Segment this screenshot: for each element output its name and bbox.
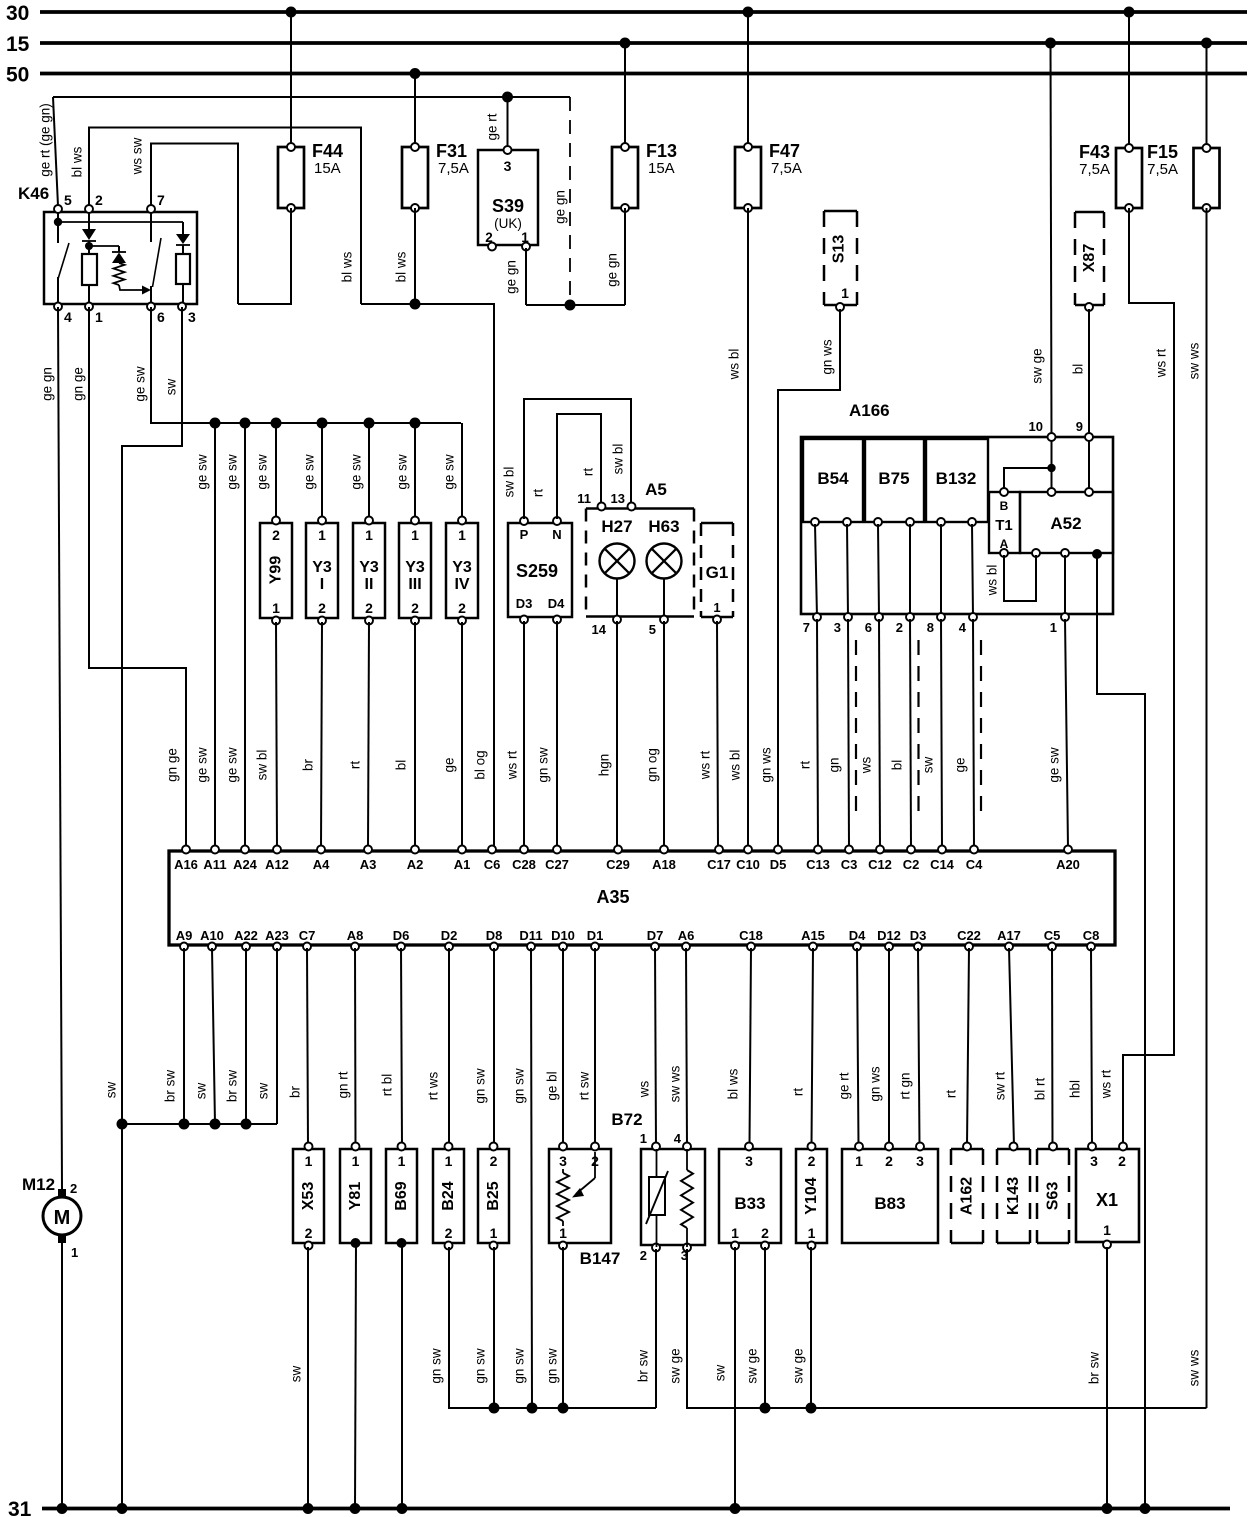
svg-text:bl ws: bl ws	[340, 251, 355, 282]
svg-text:ge sw: ge sw	[195, 454, 210, 490]
svg-text:ws bl: ws bl	[985, 565, 1000, 597]
svg-text:A5: A5	[645, 480, 667, 499]
svg-text:ge sw: ge sw	[225, 747, 240, 783]
svg-text:sw ge: sw ge	[1030, 348, 1045, 383]
svg-text:1: 1	[365, 527, 373, 543]
svg-text:A18: A18	[652, 857, 676, 872]
svg-text:bl: bl	[1071, 364, 1086, 375]
svg-text:A16: A16	[174, 857, 198, 872]
svg-text:br sw: br sw	[636, 1350, 651, 1383]
svg-text:2: 2	[411, 600, 419, 616]
svg-text:rt: rt	[798, 761, 813, 769]
svg-text:ws rt: ws rt	[698, 751, 713, 781]
svg-text:S259: S259	[516, 561, 558, 581]
svg-text:D5: D5	[770, 857, 787, 872]
svg-text:ge gn: ge gn	[504, 260, 519, 294]
svg-text:1: 1	[521, 230, 529, 245]
svg-text:C10: C10	[736, 857, 760, 872]
svg-text:sw bl: sw bl	[255, 750, 270, 781]
svg-text:A24: A24	[233, 857, 258, 872]
svg-text:7,5A: 7,5A	[1147, 161, 1178, 178]
svg-text:D1: D1	[587, 928, 604, 943]
svg-text:D7: D7	[647, 928, 664, 943]
svg-text:sw: sw	[256, 1083, 271, 1100]
svg-text:sw ws: sw ws	[1187, 342, 1202, 379]
svg-text:ge sw: ge sw	[255, 454, 270, 490]
svg-text:M12: M12	[22, 1175, 55, 1194]
svg-text:3: 3	[1090, 1153, 1098, 1169]
svg-text:hgn: hgn	[597, 754, 612, 777]
svg-text:7: 7	[157, 192, 165, 208]
svg-text:ws bl: ws bl	[727, 349, 742, 381]
svg-text:rt: rt	[791, 1088, 806, 1096]
svg-text:30: 30	[6, 2, 29, 25]
svg-text:D3: D3	[516, 596, 533, 611]
svg-text:sw bl: sw bl	[611, 444, 626, 475]
svg-text:4: 4	[959, 620, 967, 635]
svg-text:1: 1	[305, 1153, 313, 1169]
svg-text:A22: A22	[234, 928, 258, 943]
svg-text:C7: C7	[299, 928, 316, 943]
svg-text:C17: C17	[707, 857, 731, 872]
svg-text:ge rt (ge gn): ge rt (ge gn)	[38, 103, 53, 177]
svg-text:D8: D8	[486, 928, 503, 943]
svg-text:2: 2	[445, 1225, 453, 1241]
svg-text:C14: C14	[930, 857, 955, 872]
svg-text:A11: A11	[203, 857, 226, 872]
svg-text:gn ge: gn ge	[165, 748, 180, 782]
svg-text:A10: A10	[200, 928, 224, 943]
svg-text:ws rt: ws rt	[1099, 1070, 1114, 1100]
svg-text:2: 2	[485, 230, 493, 245]
svg-text:1: 1	[411, 527, 419, 543]
svg-text:ws rt: ws rt	[1154, 349, 1169, 379]
svg-text:15A: 15A	[648, 160, 675, 177]
svg-text:br: br	[301, 758, 316, 771]
svg-text:II: II	[365, 576, 374, 593]
svg-text:15: 15	[6, 33, 30, 56]
svg-text:ws bl: ws bl	[728, 750, 743, 782]
svg-text:A3: A3	[360, 857, 377, 872]
svg-text:1: 1	[808, 1225, 816, 1241]
svg-text:rt ws: rt ws	[426, 1072, 441, 1101]
svg-text:br sw: br sw	[1087, 1352, 1102, 1385]
svg-text:ge gn: ge gn	[40, 367, 55, 401]
svg-text:H27: H27	[601, 517, 632, 536]
svg-text:gn ws: gn ws	[759, 747, 774, 783]
svg-text:B54: B54	[817, 469, 849, 488]
svg-text:C29: C29	[606, 857, 630, 872]
svg-text:50: 50	[6, 64, 29, 87]
svg-text:(UK): (UK)	[494, 216, 522, 231]
svg-text:C13: C13	[806, 857, 830, 872]
svg-text:C27: C27	[545, 857, 569, 872]
svg-text:3: 3	[504, 158, 512, 174]
svg-text:ge rt: ge rt	[837, 1072, 852, 1099]
svg-text:ge: ge	[442, 757, 457, 772]
svg-text:ge sw: ge sw	[395, 454, 410, 490]
svg-text:B25: B25	[485, 1181, 502, 1210]
svg-text:1: 1	[731, 1225, 739, 1241]
svg-text:ge sw: ge sw	[225, 454, 240, 490]
svg-text:C4: C4	[966, 857, 983, 872]
svg-text:14: 14	[592, 622, 607, 637]
svg-text:2: 2	[1118, 1153, 1126, 1169]
svg-text:bl rt: bl rt	[1033, 1078, 1048, 1101]
svg-text:1: 1	[1103, 1222, 1111, 1238]
svg-text:gn sw: gn sw	[536, 747, 551, 783]
svg-text:K46: K46	[18, 184, 49, 203]
svg-text:A15: A15	[801, 928, 825, 943]
svg-text:br sw: br sw	[163, 1070, 178, 1103]
svg-text:A1: A1	[454, 857, 471, 872]
svg-text:D10: D10	[551, 928, 575, 943]
svg-text:A2: A2	[407, 857, 424, 872]
svg-text:A162: A162	[959, 1177, 976, 1215]
svg-text:A23: A23	[265, 928, 289, 943]
svg-text:Y3: Y3	[452, 559, 472, 576]
svg-text:br sw: br sw	[225, 1070, 240, 1103]
svg-text:10: 10	[1029, 419, 1043, 434]
svg-text:rt: rt	[348, 761, 363, 769]
svg-text:1: 1	[841, 285, 849, 301]
svg-text:3: 3	[559, 1153, 567, 1169]
svg-text:gn rt: gn rt	[336, 1071, 351, 1098]
svg-text:3: 3	[188, 309, 196, 325]
svg-text:sw ge: sw ge	[745, 1348, 760, 1383]
svg-text:C18: C18	[739, 928, 763, 943]
svg-text:T1: T1	[995, 517, 1013, 534]
svg-text:rt: rt	[581, 468, 596, 476]
svg-text:B24: B24	[440, 1181, 457, 1210]
svg-text:bl ws: bl ws	[70, 146, 85, 177]
svg-text:B69: B69	[393, 1181, 410, 1210]
svg-text:ge gn: ge gn	[605, 253, 620, 287]
svg-text:gn sw: gn sw	[429, 1348, 444, 1384]
svg-text:2: 2	[490, 1153, 498, 1169]
svg-text:2: 2	[365, 600, 373, 616]
svg-text:gn ge: gn ge	[71, 367, 86, 401]
svg-text:ge sw: ge sw	[349, 454, 364, 490]
svg-text:sw bl: sw bl	[502, 467, 517, 498]
svg-text:rt bl: rt bl	[380, 1074, 395, 1097]
svg-text:C8: C8	[1083, 928, 1100, 943]
svg-text:gn sw: gn sw	[512, 1068, 527, 1104]
svg-text:15A: 15A	[314, 160, 341, 177]
svg-text:A166: A166	[849, 401, 890, 420]
svg-text:rt gn: rt gn	[898, 1072, 913, 1099]
svg-text:1: 1	[445, 1153, 453, 1169]
svg-text:ws: ws	[637, 1081, 652, 1099]
svg-text:gn og: gn og	[645, 748, 660, 782]
svg-text:4: 4	[674, 1131, 682, 1146]
svg-text:X1: X1	[1096, 1190, 1118, 1210]
svg-text:B75: B75	[878, 469, 909, 488]
svg-text:1: 1	[1050, 620, 1057, 635]
svg-text:sw: sw	[921, 757, 936, 774]
svg-text:2: 2	[885, 1153, 893, 1169]
svg-text:ws: ws	[859, 757, 874, 775]
svg-text:7,5A: 7,5A	[1079, 161, 1110, 178]
svg-text:ge rt: ge rt	[485, 113, 500, 140]
svg-text:D3: D3	[910, 928, 927, 943]
svg-text:2: 2	[640, 1248, 647, 1263]
svg-text:P: P	[520, 527, 529, 542]
svg-text:1: 1	[458, 527, 466, 543]
svg-text:B33: B33	[734, 1194, 765, 1213]
svg-text:A35: A35	[596, 887, 629, 907]
svg-text:ge sw: ge sw	[133, 366, 148, 402]
svg-text:sw rt: sw rt	[993, 1072, 1008, 1101]
svg-text:1: 1	[640, 1131, 647, 1146]
svg-text:11: 11	[577, 491, 591, 506]
svg-text:2: 2	[272, 527, 280, 543]
svg-text:ge sw: ge sw	[442, 454, 457, 490]
svg-text:A6: A6	[678, 928, 695, 943]
svg-text:F31: F31	[436, 141, 467, 161]
svg-text:1: 1	[352, 1153, 360, 1169]
svg-text:1: 1	[559, 1225, 567, 1241]
svg-text:A9: A9	[176, 928, 193, 943]
svg-text:C5: C5	[1044, 928, 1061, 943]
svg-text:1: 1	[398, 1153, 406, 1169]
svg-text:Y3: Y3	[405, 559, 425, 576]
svg-text:Y81: Y81	[347, 1182, 364, 1211]
svg-text:7,5A: 7,5A	[771, 160, 802, 177]
svg-text:C6: C6	[484, 857, 501, 872]
svg-text:6: 6	[865, 620, 872, 635]
svg-text:A4: A4	[313, 857, 330, 872]
svg-text:bl: bl	[890, 760, 905, 771]
svg-text:sw: sw	[104, 1082, 119, 1099]
svg-text:F43: F43	[1079, 142, 1110, 162]
svg-text:gn ws: gn ws	[868, 1066, 883, 1102]
svg-text:7,5A: 7,5A	[438, 160, 469, 177]
svg-text:2: 2	[896, 620, 903, 635]
svg-text:gn: gn	[827, 757, 842, 772]
svg-text:sw ge: sw ge	[668, 1348, 683, 1383]
svg-text:A12: A12	[265, 857, 289, 872]
svg-text:sw: sw	[289, 1366, 304, 1383]
svg-text:S63: S63	[1045, 1182, 1062, 1211]
svg-text:1: 1	[95, 309, 103, 325]
svg-text:rt: rt	[944, 1090, 959, 1098]
svg-text:bl og: bl og	[473, 750, 488, 779]
svg-text:ge sw: ge sw	[195, 747, 210, 783]
svg-text:B132: B132	[936, 469, 977, 488]
svg-text:gn sw: gn sw	[473, 1348, 488, 1384]
svg-text:bl: bl	[394, 760, 409, 771]
svg-text:D12: D12	[877, 928, 901, 943]
svg-text:C3: C3	[841, 857, 858, 872]
svg-text:sw: sw	[194, 1083, 209, 1100]
svg-text:hbl: hbl	[1068, 1080, 1083, 1098]
svg-text:bl ws: bl ws	[394, 251, 409, 282]
svg-text:5: 5	[64, 192, 72, 208]
svg-text:S39: S39	[492, 196, 524, 216]
svg-text:D11: D11	[519, 928, 542, 943]
svg-text:sw ws: sw ws	[668, 1065, 683, 1102]
svg-text:D6: D6	[393, 928, 410, 943]
svg-text:4: 4	[64, 309, 72, 325]
svg-text:ws sw: ws sw	[130, 137, 145, 175]
svg-text:IV: IV	[454, 576, 469, 593]
svg-text:31: 31	[8, 1498, 32, 1517]
svg-text:ge sw: ge sw	[1047, 747, 1062, 783]
svg-text:sw ws: sw ws	[1187, 1349, 1202, 1386]
svg-text:2: 2	[761, 1225, 769, 1241]
svg-text:2: 2	[95, 192, 103, 208]
svg-text:S13: S13	[831, 235, 848, 264]
svg-text:Y104: Y104	[803, 1177, 820, 1214]
svg-text:5: 5	[649, 622, 656, 637]
svg-text:A20: A20	[1056, 857, 1080, 872]
svg-text:III: III	[408, 576, 421, 593]
svg-text:F13: F13	[646, 141, 677, 161]
svg-text:1: 1	[490, 1225, 498, 1241]
svg-text:2: 2	[808, 1153, 816, 1169]
svg-text:ge gn: ge gn	[553, 190, 568, 224]
svg-text:D2: D2	[441, 928, 458, 943]
svg-text:C22: C22	[957, 928, 981, 943]
svg-text:2: 2	[318, 600, 326, 616]
svg-text:N: N	[552, 527, 561, 542]
svg-text:3: 3	[745, 1153, 753, 1169]
svg-text:1: 1	[272, 600, 280, 616]
svg-text:7: 7	[803, 620, 810, 635]
svg-text:2: 2	[458, 600, 466, 616]
svg-text:B72: B72	[611, 1110, 642, 1129]
svg-text:B147: B147	[580, 1249, 621, 1268]
svg-text:F47: F47	[769, 141, 800, 161]
svg-text:F15: F15	[1147, 142, 1178, 162]
svg-text:B: B	[1000, 499, 1009, 513]
svg-text:D4: D4	[548, 596, 565, 611]
svg-text:X87: X87	[1081, 244, 1098, 273]
svg-text:1: 1	[318, 527, 326, 543]
svg-text:9: 9	[1076, 419, 1083, 434]
svg-text:8: 8	[927, 620, 934, 635]
svg-text:rt sw: rt sw	[577, 1072, 592, 1101]
svg-text:A8: A8	[347, 928, 364, 943]
svg-text:rt: rt	[531, 489, 546, 497]
svg-text:1: 1	[713, 600, 720, 615]
svg-text:2: 2	[70, 1181, 77, 1196]
svg-text:K143: K143	[1005, 1177, 1022, 1215]
svg-text:gn sw: gn sw	[473, 1068, 488, 1104]
svg-text:gn ws: gn ws	[820, 339, 835, 375]
svg-text:br: br	[288, 1085, 303, 1098]
svg-text:ws rt: ws rt	[505, 751, 520, 781]
svg-text:C28: C28	[512, 857, 536, 872]
svg-text:bl ws: bl ws	[726, 1068, 741, 1099]
svg-text:sw: sw	[164, 379, 179, 396]
svg-text:sw: sw	[713, 1365, 728, 1382]
svg-text:3: 3	[834, 620, 841, 635]
svg-text:I: I	[320, 576, 324, 593]
svg-text:F44: F44	[312, 141, 343, 161]
svg-text:C12: C12	[868, 857, 892, 872]
svg-text:6: 6	[157, 309, 165, 325]
svg-text:ge sw: ge sw	[302, 454, 317, 490]
svg-text:sw ge: sw ge	[791, 1348, 806, 1383]
svg-text:Y3: Y3	[312, 559, 332, 576]
svg-text:D4: D4	[849, 928, 866, 943]
svg-text:A52: A52	[1050, 514, 1081, 533]
svg-text:1: 1	[71, 1245, 78, 1260]
svg-text:C2: C2	[903, 857, 920, 872]
svg-text:A17: A17	[997, 928, 1021, 943]
svg-text:13: 13	[611, 491, 625, 506]
svg-text:3: 3	[916, 1153, 924, 1169]
svg-text:G1: G1	[706, 563, 729, 582]
svg-text:gn sw: gn sw	[512, 1348, 527, 1384]
svg-text:H63: H63	[648, 517, 679, 536]
svg-text:X53: X53	[300, 1182, 317, 1211]
svg-text:Y99: Y99	[268, 556, 285, 585]
svg-text:gn sw: gn sw	[545, 1348, 560, 1384]
svg-text:ge bl: ge bl	[545, 1071, 560, 1100]
svg-text:B83: B83	[874, 1194, 905, 1213]
svg-text:Y3: Y3	[359, 559, 379, 576]
svg-text:2: 2	[305, 1225, 313, 1241]
svg-text:1: 1	[855, 1153, 863, 1169]
svg-text:M: M	[54, 1207, 71, 1229]
svg-text:ge: ge	[953, 757, 968, 772]
